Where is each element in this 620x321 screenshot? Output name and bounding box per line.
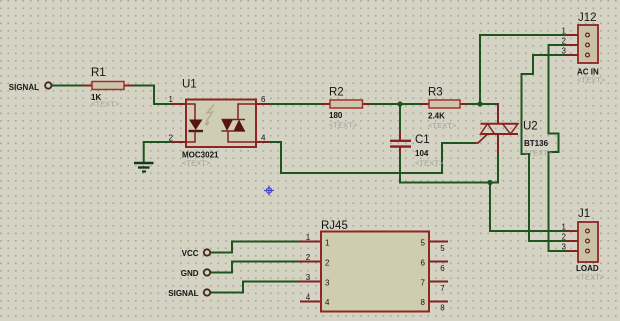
RJ45 pin 2 stub bbox=[300, 261, 321, 263]
wire VCC to RJ45 pin1 bbox=[211, 242, 301, 253]
svg-text:2.4K: 2.4K bbox=[428, 112, 445, 121]
wire GND to RJ45 pin2 bbox=[211, 262, 301, 273]
wire SIGNAL2 to RJ45 pin3 bbox=[211, 282, 301, 293]
origin marker (blue) bbox=[264, 186, 274, 196]
svg-text:<TEXT>: <TEXT> bbox=[91, 100, 120, 109]
svg-text:4: 4 bbox=[261, 134, 266, 143]
svg-text:2: 2 bbox=[169, 134, 174, 143]
svg-text:3: 3 bbox=[306, 273, 311, 282]
svg-text:U2: U2 bbox=[523, 121, 538, 133]
svg-text:1: 1 bbox=[169, 95, 174, 104]
LED inside U1 bbox=[186, 104, 195, 120]
svg-text:2: 2 bbox=[325, 259, 330, 268]
svg-text:<TEXT>: <TEXT> bbox=[182, 159, 211, 168]
opto-triac inside U1 bbox=[238, 104, 256, 120]
RJ45 pin 5 stub bbox=[429, 241, 448, 243]
op-amp U1 optocoupler MOC3021 bbox=[169, 79, 270, 168]
terminal SIGNAL (input, top-left) bbox=[9, 82, 52, 92]
wire J12 pin3 to J1 pin2 bbox=[522, 55, 567, 241]
svg-text:VCC: VCC bbox=[182, 249, 199, 258]
svg-text:<TEXT>: <TEXT> bbox=[428, 121, 457, 130]
wire R1 to U1 pin1 bbox=[134, 86, 172, 105]
wire R2 to R3 bbox=[371, 103, 422, 105]
RJ45 pin 8 stub bbox=[429, 301, 448, 303]
svg-text:R2: R2 bbox=[329, 87, 344, 99]
svg-text:104: 104 bbox=[415, 149, 429, 158]
svg-text:2: 2 bbox=[562, 233, 567, 242]
svg-text:5: 5 bbox=[440, 244, 445, 253]
terminal GND bbox=[181, 269, 210, 278]
svg-text:J1: J1 bbox=[578, 208, 590, 220]
connector RJ45 bbox=[300, 220, 448, 313]
svg-text:4: 4 bbox=[325, 298, 330, 307]
RJ45 pin 6 stub bbox=[429, 261, 448, 263]
svg-text:<TEXT>: <TEXT> bbox=[524, 149, 553, 158]
svg-text:8: 8 bbox=[421, 298, 426, 307]
wire C1 bottom to MT1 rail bbox=[400, 153, 498, 183]
svg-text:BT136: BT136 bbox=[524, 139, 549, 148]
wire triac MT1 down to rail bbox=[497, 152, 499, 183]
svg-text:5: 5 bbox=[421, 239, 426, 248]
svg-text:R3: R3 bbox=[428, 87, 443, 99]
RJ45 pin 4 stub bbox=[300, 301, 321, 303]
svg-text:<TEXT>: <TEXT> bbox=[329, 121, 358, 130]
svg-text:1: 1 bbox=[562, 223, 567, 232]
svg-text:GND: GND bbox=[181, 269, 199, 278]
svg-text:2: 2 bbox=[562, 37, 567, 46]
svg-text:1: 1 bbox=[325, 239, 330, 248]
svg-text:8: 8 bbox=[440, 304, 445, 313]
capacitor C1 bbox=[390, 132, 444, 168]
svg-text:RJ45: RJ45 bbox=[321, 220, 348, 232]
terminal SIGNAL (bottom) bbox=[168, 289, 210, 298]
svg-text:3: 3 bbox=[562, 243, 567, 252]
svg-text:6: 6 bbox=[421, 259, 426, 268]
RJ45 pin 7 stub bbox=[429, 281, 448, 283]
svg-text:<TEXT>: <TEXT> bbox=[577, 76, 606, 85]
connector J1 (LOAD) bbox=[562, 208, 605, 282]
svg-text:J12: J12 bbox=[578, 12, 597, 24]
svg-text:<TEXT>: <TEXT> bbox=[576, 273, 605, 282]
resistor R2 bbox=[322, 87, 371, 130]
resistor R3 bbox=[421, 87, 468, 131]
wire SIGNAL terminal to R1 bbox=[52, 85, 84, 87]
RJ45 pin 3 stub bbox=[300, 281, 321, 283]
svg-text:<TEXT>: <TEXT> bbox=[415, 159, 444, 168]
svg-text:1: 1 bbox=[562, 27, 567, 36]
wire U1 pin2 to ground bbox=[144, 142, 172, 162]
svg-text:C1: C1 bbox=[415, 134, 430, 146]
wire R3 to triac MT2 bbox=[468, 103, 498, 105]
junction node B (R3/J12/MT2) bbox=[477, 101, 482, 106]
svg-text:U1: U1 bbox=[182, 79, 197, 91]
junction node C (MT1/J1) bbox=[487, 180, 492, 185]
wire MT2 node up to J12 pin1 bbox=[480, 35, 566, 104]
svg-text:7: 7 bbox=[440, 284, 445, 293]
svg-text:2: 2 bbox=[306, 253, 311, 262]
resistor R1 bbox=[84, 67, 134, 109]
svg-text:6: 6 bbox=[261, 95, 266, 104]
wire U1 pin4 to triac gate bbox=[270, 142, 475, 173]
svg-text:180: 180 bbox=[329, 111, 343, 120]
wire U1 pin6 to R2 bbox=[270, 103, 322, 105]
junction node A (C1 top) bbox=[397, 101, 402, 106]
svg-text:6: 6 bbox=[440, 264, 445, 273]
svg-text:7: 7 bbox=[421, 279, 426, 288]
transistor U2 triac BT136 bbox=[475, 104, 553, 158]
wire node to C1 top bbox=[399, 104, 401, 133]
svg-text:4: 4 bbox=[306, 293, 311, 302]
svg-text:1: 1 bbox=[306, 233, 311, 242]
wire MT1 junction down to J1 pin1 bbox=[490, 183, 566, 232]
connector J12 (AC IN) bbox=[562, 12, 606, 85]
svg-text:SIGNAL: SIGNAL bbox=[168, 289, 198, 298]
svg-text:3: 3 bbox=[325, 279, 330, 288]
terminal VCC bbox=[182, 249, 211, 258]
svg-text:SIGNAL: SIGNAL bbox=[9, 83, 39, 92]
svg-text:3: 3 bbox=[562, 47, 567, 56]
light arrow zigzag bbox=[206, 105, 214, 123]
RJ45 pin 1 stub bbox=[300, 241, 321, 243]
svg-text:R1: R1 bbox=[91, 67, 106, 79]
wire J12 pin2 to J1 pin3 bbox=[549, 45, 567, 251]
ground bbox=[134, 163, 154, 172]
